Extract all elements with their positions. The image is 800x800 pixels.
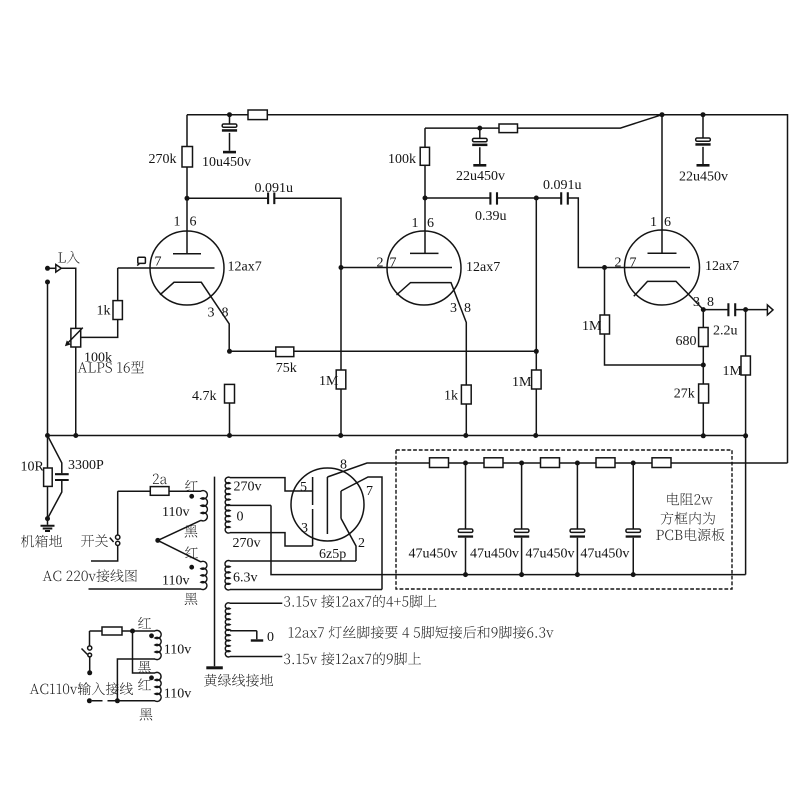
node output load ground on bus bbox=[743, 433, 748, 438]
stage2 plate bbox=[410, 198, 439, 253]
wire 3.15v bottom tap stub bbox=[230, 656, 282, 658]
resistor 1M feedback shunt bbox=[532, 370, 542, 389]
svg-text:1k: 1k bbox=[444, 389, 458, 404]
node stage3 cathode network junction bbox=[701, 363, 706, 368]
node AC mains terminal to windings bbox=[87, 698, 92, 703]
node AC110 winding-return junction bbox=[115, 698, 120, 703]
svg-text:12ax7: 12ax7 bbox=[228, 260, 262, 275]
svg-text:1: 1 bbox=[412, 216, 419, 231]
wire input to volume pot bbox=[61, 268, 75, 328]
wire stage1 cathode to feedback node bbox=[230, 350, 537, 352]
note label 3.15v to 12ax7 pins 4+5 bbox=[284, 595, 436, 608]
capacitor 0.39u coupling bbox=[490, 192, 497, 204]
resistor filter dropper 3 on PSU rail bbox=[541, 458, 560, 468]
transformer core line bbox=[214, 477, 216, 667]
node junction of 10u450v cap on top rail bbox=[227, 112, 232, 117]
svg-text:6: 6 bbox=[427, 216, 434, 231]
note label inside frame is bbox=[661, 512, 715, 525]
value label black B bbox=[185, 593, 198, 605]
value label red upper bbox=[138, 617, 151, 629]
wire junction down to winding4 top bbox=[133, 631, 156, 673]
resistor filter dropper 5 on PSU rail bbox=[652, 458, 671, 468]
value label red lower bbox=[138, 678, 151, 690]
ground chassis symbol bbox=[47, 519, 49, 525]
resistor 1M output load bbox=[745, 310, 747, 575]
winding 3.15v secondary bbox=[225, 603, 230, 657]
node filter cap 4 top bbox=[631, 461, 636, 466]
resistor 680 stage3 cathode upper bbox=[702, 310, 704, 384]
wire 6.3v bottom tap to heater pin7 bbox=[230, 589, 382, 591]
wire main ground bus bbox=[48, 435, 746, 437]
resistor filter dropper 1 on PSU rail bbox=[430, 458, 449, 468]
node pot ground bbox=[73, 433, 78, 438]
wire 3.15v top tap stub bbox=[230, 602, 282, 604]
svg-text:10R: 10R bbox=[21, 460, 45, 475]
svg-text:7: 7 bbox=[366, 484, 373, 499]
node output load junction bbox=[743, 307, 748, 312]
svg-text:3: 3 bbox=[301, 521, 308, 536]
svg-text:6z5p: 6z5p bbox=[319, 547, 346, 562]
fuse 2a bbox=[150, 487, 169, 496]
svg-text:100k: 100k bbox=[388, 152, 416, 167]
node filter cap 3 bottom bbox=[575, 572, 580, 577]
value label black A bbox=[185, 525, 198, 537]
svg-text:100k: 100k bbox=[84, 351, 112, 366]
resistor 1k grid stopper bbox=[113, 301, 122, 320]
wire 270v bottom tap to rectifier plate pin3 bbox=[230, 533, 313, 546]
svg-text:12ax7: 12ax7 bbox=[705, 259, 739, 274]
svg-text:22u450v: 22u450v bbox=[456, 169, 505, 184]
svg-text:8: 8 bbox=[340, 458, 347, 473]
wire stage2 grid lead bbox=[341, 267, 452, 269]
value label black lower bbox=[140, 708, 153, 720]
resistor 10R ground lift bbox=[47, 436, 49, 519]
svg-text:0.091u: 0.091u bbox=[543, 178, 582, 193]
node junction of stage3 22u450v cap on top rail bbox=[701, 112, 706, 117]
node stage3 grid junction bbox=[602, 265, 607, 270]
value label black upper bbox=[138, 661, 151, 673]
node ground bus left end bbox=[45, 433, 50, 438]
resistor filter dropper 2 on PSU rail bbox=[484, 458, 503, 468]
value label 2a bbox=[153, 474, 167, 485]
node 1M bottom on ground bus bbox=[338, 433, 343, 438]
svg-text:110v: 110v bbox=[162, 574, 189, 589]
wire between coupling caps bbox=[498, 197, 562, 199]
node filter cap 4 bottom bbox=[631, 572, 636, 577]
svg-text:47u450v: 47u450v bbox=[470, 547, 519, 562]
tube stage3 12ax7 envelope bbox=[625, 230, 700, 305]
svg-text:22u450v: 22u450v bbox=[679, 170, 728, 185]
node stage3 cathode output junction bbox=[701, 307, 706, 312]
svg-text:10u450v: 10u450v bbox=[202, 155, 251, 170]
svg-text:6: 6 bbox=[190, 215, 197, 230]
svg-text:47u450v: 47u450v bbox=[526, 547, 575, 562]
node stage2 plate junction bbox=[423, 196, 428, 201]
note label AC 220v wiring diagram bbox=[43, 569, 137, 582]
svg-text:0: 0 bbox=[237, 510, 244, 525]
svg-text:110v: 110v bbox=[164, 686, 191, 701]
svg-text:12ax7: 12ax7 bbox=[466, 260, 500, 275]
value label switch bbox=[81, 534, 108, 547]
svg-text:2.2u: 2.2u bbox=[713, 324, 738, 339]
svg-text:1M: 1M bbox=[582, 319, 602, 334]
svg-text:47u450v: 47u450v bbox=[580, 547, 629, 562]
output terminal arrow bbox=[767, 305, 773, 315]
svg-text:270k: 270k bbox=[149, 152, 177, 167]
switch power on-off bbox=[116, 535, 120, 539]
wire output cap to terminal bbox=[735, 309, 767, 311]
svg-text:5: 5 bbox=[300, 480, 307, 495]
svg-text:1M: 1M bbox=[319, 374, 339, 389]
capacitor 3300P ground lift bbox=[48, 436, 62, 474]
node filter cap 2 top bbox=[519, 461, 524, 466]
phase dot primary B bbox=[189, 565, 194, 570]
stage1 cathode bbox=[160, 282, 229, 351]
svg-text:8: 8 bbox=[222, 306, 229, 321]
phase dot winding lower bbox=[149, 675, 154, 680]
potentiometer wiper arrow bbox=[67, 328, 83, 344]
resistor series dropper on top B+ rail bbox=[248, 110, 267, 120]
capacitor 47u450v filter 1 bbox=[465, 463, 467, 529]
winding 110v diagram lower bbox=[155, 672, 161, 701]
value label L-in input bbox=[58, 251, 79, 264]
node filter cap 2 bottom bbox=[519, 572, 524, 577]
value label yellow-green wire ground bbox=[204, 674, 273, 687]
svg-text:0.39u: 0.39u bbox=[475, 209, 507, 224]
node stage2 grid junction bbox=[339, 265, 344, 270]
svg-text:110v: 110v bbox=[162, 505, 189, 520]
note label 3.15v to 12ax7 pin 9 bbox=[284, 652, 421, 665]
resistor 1k stage2 cathode bbox=[461, 385, 471, 404]
wire AC terminal to winding bottoms bbox=[117, 659, 155, 701]
svg-text:270v: 270v bbox=[234, 480, 262, 495]
svg-text:270v: 270v bbox=[233, 536, 261, 551]
wire heater pin2 to 6.3v winding top bbox=[341, 518, 356, 561]
node 110v parallel red junction bbox=[130, 629, 135, 634]
tube stage2 12ax7 envelope bbox=[387, 231, 461, 305]
node feedback tap between coupling caps bbox=[534, 196, 539, 201]
wire 3.15v center tap with ground mark bbox=[230, 631, 257, 640]
value label ALPS 16 bbox=[78, 361, 144, 373]
note label PCB power board bbox=[656, 528, 724, 541]
wire input ground down to bus bbox=[47, 282, 49, 436]
resistor 100k stage2 plate load bbox=[424, 128, 426, 198]
rectifier plate pin3 bbox=[312, 509, 314, 546]
PCB power board dashed outline bbox=[396, 450, 732, 589]
node input terminal signal bbox=[45, 266, 50, 271]
resistor 1M stage2 grid leak bbox=[340, 268, 342, 436]
capacitor 0.091u coupling stage1-stage2 bbox=[268, 193, 274, 205]
phase dot winding upper bbox=[149, 633, 154, 638]
wire stage2 plate to coupling caps bbox=[425, 197, 490, 199]
wire fuse to windings junction bbox=[90, 630, 156, 632]
svg-text:27k: 27k bbox=[674, 387, 695, 402]
rectifier cathode bar bbox=[326, 477, 328, 534]
svg-text:8: 8 bbox=[707, 295, 714, 310]
svg-text:1: 1 bbox=[174, 215, 181, 230]
potentiometer 100k ALPS body bbox=[71, 328, 81, 347]
node input ground terminal bbox=[45, 280, 50, 285]
resistor filter dropper 4 on PSU rail bbox=[596, 458, 615, 468]
node filter cap 1 bottom bbox=[463, 572, 468, 577]
wire pot wiper to 1k grid stopper bbox=[81, 320, 118, 338]
wire primary A bottom to center junction bbox=[158, 520, 201, 540]
rectifier plate pin5 bbox=[312, 477, 314, 505]
wire 270v top tap to rectifier plate pin5 bbox=[230, 478, 313, 491]
svg-text:1M: 1M bbox=[723, 364, 743, 379]
node filter cap 3 top bbox=[575, 461, 580, 466]
tube stage1 12ax7 envelope bbox=[150, 231, 224, 305]
node junction of stage3 plate riser on top rail bbox=[660, 112, 665, 117]
resistor 27k stage3 cathode lower bbox=[699, 384, 709, 403]
stage1 grid line bbox=[118, 267, 215, 269]
node stage1 cathode junction bbox=[227, 349, 232, 354]
capacitor 47u450v filter 3 bbox=[576, 463, 578, 529]
svg-text:3: 3 bbox=[450, 301, 457, 316]
wire coupling to stage3 grid node bbox=[568, 198, 604, 268]
svg-text:1M: 1M bbox=[512, 375, 532, 390]
capacitor 47u450v filter 4 bbox=[632, 463, 634, 529]
wire center junction to primary B top bbox=[158, 540, 201, 562]
capacitor 0.091u coupling to stage3 bbox=[561, 192, 568, 204]
node feedback wire junction bbox=[534, 349, 539, 354]
resistor 270k stage1 plate load bbox=[186, 115, 188, 199]
capacitor 22u450v electrolytic stage3 supply bbox=[702, 115, 704, 164]
svg-text:0.091u: 0.091u bbox=[255, 181, 294, 196]
transformer core ground bar bbox=[206, 666, 223, 669]
fuse AC110v bbox=[102, 627, 122, 635]
svg-text:680: 680 bbox=[676, 334, 697, 349]
stage1 plate bbox=[173, 198, 201, 254]
svg-text:1k: 1k bbox=[97, 304, 111, 319]
svg-text:1: 1 bbox=[650, 215, 657, 230]
node AC mains terminal from switch bbox=[87, 670, 92, 675]
svg-text:6: 6 bbox=[664, 215, 671, 230]
stage3 cathode bbox=[634, 281, 704, 309]
node junction of 22u450v cap on stage2 rail bbox=[477, 126, 482, 131]
node filter cap 1 top bbox=[463, 461, 468, 466]
input terminal arrow bbox=[48, 267, 56, 269]
wire stage3 cathode to output cap bbox=[703, 309, 728, 311]
svg-text:3: 3 bbox=[693, 295, 700, 310]
svg-text:0: 0 bbox=[267, 630, 274, 645]
pin label 7 with grid symbol bbox=[138, 257, 146, 263]
capacitor 47u450v filter 2 bbox=[521, 463, 523, 529]
wire stage3 grid lead bbox=[605, 267, 691, 269]
value label red B bbox=[185, 546, 198, 558]
note label AC110v input wiring bbox=[30, 682, 133, 695]
wire B+ top rail from first stage to right edge and down to PSU output bbox=[187, 115, 788, 463]
wire fuse left to switch bbox=[89, 631, 91, 646]
resistor 1M stage3 grid leak bbox=[605, 268, 704, 366]
wire primary B bottom to mains terminal stub bbox=[89, 588, 202, 590]
wire switch to AC mains terminal bbox=[89, 657, 91, 671]
winding HV secondary 270-0-270 bbox=[225, 477, 230, 533]
node 27k bottom on ground bus bbox=[701, 433, 706, 438]
stage2 cathode bbox=[397, 283, 467, 385]
value label chassis ground bbox=[21, 535, 62, 548]
node stage1 plate junction bbox=[185, 196, 190, 201]
wire coupling cap to stage2 grid node bbox=[274, 198, 341, 267]
capacitor 2.2u output coupling bbox=[728, 303, 735, 316]
stage3 plate bbox=[648, 115, 677, 254]
winding 110v diagram upper bbox=[155, 630, 161, 659]
winding primary A 110v bbox=[201, 491, 207, 521]
phase dot primary A bbox=[189, 494, 194, 499]
note label heater wiring instruction bbox=[289, 626, 554, 639]
svg-text:6.3v: 6.3v bbox=[233, 571, 258, 586]
svg-text:7: 7 bbox=[155, 255, 162, 270]
svg-text:2: 2 bbox=[615, 256, 622, 271]
wire B+ rail from rectifier cathode through filter bbox=[327, 463, 787, 477]
wire 6.3v top tap to heater pin2 bbox=[230, 560, 356, 562]
wire 0 center tap to PSU ground rail bbox=[230, 504, 271, 506]
svg-text:4.7k: 4.7k bbox=[192, 389, 217, 404]
wire pot bottom to ground bus bbox=[75, 347, 77, 436]
winding primary B 110v bbox=[201, 561, 207, 589]
node 1M bottom on ground bus bbox=[533, 433, 538, 438]
node 4.7k bottom on ground bus bbox=[227, 433, 232, 438]
svg-text:2: 2 bbox=[358, 536, 365, 551]
capacitor 22u450v electrolytic stage2 supply bbox=[479, 128, 481, 164]
switch AC110v bbox=[88, 646, 92, 650]
wire heater pin7 to 6.3v winding bottom bbox=[341, 477, 382, 590]
svg-text:7: 7 bbox=[390, 256, 397, 271]
svg-text:8: 8 bbox=[464, 301, 471, 316]
tube rectifier 6z5p envelope bbox=[291, 468, 364, 541]
resistor series dropper on stage2 supply rail bbox=[499, 124, 518, 133]
note label resistors 2w bbox=[667, 493, 712, 506]
rectifier heater bar bbox=[340, 491, 342, 518]
svg-text:47u450v: 47u450v bbox=[409, 547, 458, 562]
svg-text:110v: 110v bbox=[164, 643, 191, 658]
wire switch bottom to mains terminal stub bbox=[91, 546, 118, 562]
svg-text:75k: 75k bbox=[276, 361, 297, 376]
resistor 4.7k stage1 cathode bbox=[225, 384, 235, 403]
node chassis ground junction bbox=[45, 516, 50, 521]
wire dashed AC mains pair bbox=[92, 700, 115, 702]
wire mains switch to fuse to primary A top bbox=[118, 490, 201, 492]
wire stage2 supply rail with diagonal to top rail bbox=[425, 115, 662, 128]
svg-text:3300P: 3300P bbox=[68, 458, 104, 473]
capacitor 10u450v electrolytic from top rail bbox=[229, 115, 231, 151]
wire feedback vertical from coupling tap down to 1M bbox=[535, 198, 537, 436]
resistor 75k feedback bbox=[276, 347, 294, 357]
wire stage1 plate to coupling cap 0.091u bbox=[187, 197, 268, 199]
winding 6.3v secondary bbox=[225, 561, 230, 590]
wire PSU ground rail bbox=[271, 505, 746, 574]
value label red A bbox=[185, 480, 198, 492]
node primary series center junction bbox=[155, 538, 160, 543]
wire 1k to stage1 grid bbox=[117, 268, 119, 301]
node 1k bottom on ground bus bbox=[463, 433, 468, 438]
svg-text:2: 2 bbox=[377, 256, 384, 271]
svg-text:7: 7 bbox=[630, 256, 637, 271]
svg-text:3: 3 bbox=[208, 306, 215, 321]
